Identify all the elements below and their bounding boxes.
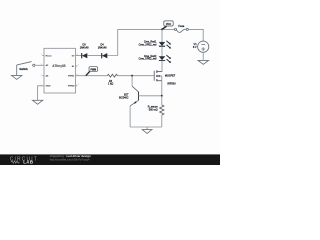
IC U1 ATtiny85 box: [44, 48, 76, 93]
LED D1 Cree_Red1 Cree_XPE2_red: [139, 41, 171, 49]
svg-text:PWM1: PWM1: [68, 76, 75, 78]
diode D3 1N4148: [80, 44, 89, 59]
svg-text:http://circuitlab.com/c/5kv7tx: http://circuitlab.com/c/5kv7tx7toyq4: [50, 158, 90, 162]
node VCC flag: [161, 21, 173, 30]
wire VCC rail down to LED1: [161, 29, 163, 42]
node junction base/source/R_sense: [161, 95, 163, 97]
footer text: [50, 154, 91, 162]
svg-text:chapterboy : Led driver design: chapterboy : Led driver design: [50, 154, 91, 158]
svg-text:MOSFET: MOSFET: [165, 75, 176, 78]
svg-text:1 kΩ: 1 kΩ: [108, 83, 113, 86]
svg-text:3: 3: [41, 64, 42, 66]
wire top rail: [118, 28, 175, 30]
wire R4 to MOSFET gate: [118, 75, 154, 77]
svg-text:Cree_XPE2_red: Cree_XPE2_red: [139, 58, 157, 61]
svg-text:1: 1: [41, 54, 42, 56]
wire MOSFET source down: [161, 81, 163, 96]
wire D3 to D4: [87, 55, 101, 57]
diode D4 1N4148: [98, 44, 107, 59]
wire IC 5V pin to D3: [76, 55, 82, 57]
svg-text:Fuse: Fuse: [178, 25, 184, 28]
wire LED1 to LED2: [161, 47, 163, 57]
pin A2 (3): [41, 64, 49, 67]
wire BJT base to sense node: [139, 95, 162, 97]
transistor Q1 BJT BC546C: [119, 76, 138, 106]
pin 5V (8): [72, 54, 78, 57]
svg-text:VCC: VCC: [166, 23, 171, 26]
wire IC GND pin to ground: [38, 86, 44, 100]
svg-text:Reset: Reset: [46, 54, 52, 57]
wire V1 to ground: [202, 52, 204, 60]
svg-text:Cree_XPE2_red: Cree_XPE2_red: [139, 43, 157, 46]
svg-text:2: 2: [41, 74, 42, 76]
node PWM flag: [86, 67, 98, 76]
pin Reset (1): [41, 54, 52, 57]
wire switch to IC pin A2: [35, 64, 44, 66]
svg-text:PWM0: PWM0: [68, 86, 75, 88]
pin PWM1 (6): [68, 74, 78, 77]
footer bar: [0, 154, 220, 165]
svg-text:IRF530: IRF530: [167, 82, 176, 85]
wire BJT emitter down: [129, 106, 131, 127]
resistor R4 1 kOhm: [107, 74, 117, 85]
logo CircuitLab: [10, 156, 38, 164]
svg-text:5: 5: [78, 84, 79, 86]
pin GND (4): [41, 84, 51, 87]
svg-text:560 mΩ: 560 mΩ: [149, 108, 158, 111]
pin PWM0 (5): [68, 84, 79, 87]
switch SW1: [17, 62, 35, 71]
fuse F1: [174, 25, 188, 33]
switch SW1 ground: [12, 65, 22, 80]
LED D2 Cree_Red2 Cree_XPE2_red: [139, 55, 171, 63]
svg-text:LAB: LAB: [23, 160, 33, 165]
svg-text:BC546C: BC546C: [119, 97, 129, 100]
wire bottom rail: [130, 126, 162, 128]
svg-text:1N4148: 1N4148: [80, 46, 89, 49]
svg-text:8 V: 8 V: [193, 46, 197, 49]
wire fuse to V1: [188, 29, 203, 41]
pin A1 (7): [72, 65, 79, 68]
wire PWM1 pin to R4: [76, 75, 108, 77]
svg-text:PWM: PWM: [90, 70, 96, 72]
svg-text:ATtiny85: ATtiny85: [52, 64, 65, 68]
pin A3 (2): [41, 74, 49, 77]
ground (bottom rail): [142, 127, 152, 134]
svg-text:Switch: Switch: [19, 67, 28, 71]
ground (V1): [198, 60, 209, 64]
MOSFET M1 IRF530: [154, 70, 176, 85]
ground (IC GND): [33, 100, 43, 104]
wire D4 up to VCC rail: [107, 29, 118, 55]
voltage source V1 8V: [193, 41, 209, 52]
svg-text:7: 7: [78, 65, 79, 67]
resistor R_sense 560 mOhm: [148, 96, 164, 127]
node junction gate/BJT collector: [131, 75, 133, 77]
svg-text:GND: GND: [46, 86, 51, 88]
svg-text:1N4148: 1N4148: [98, 46, 107, 49]
wire LED2 to MOSFET drain: [157, 61, 162, 72]
